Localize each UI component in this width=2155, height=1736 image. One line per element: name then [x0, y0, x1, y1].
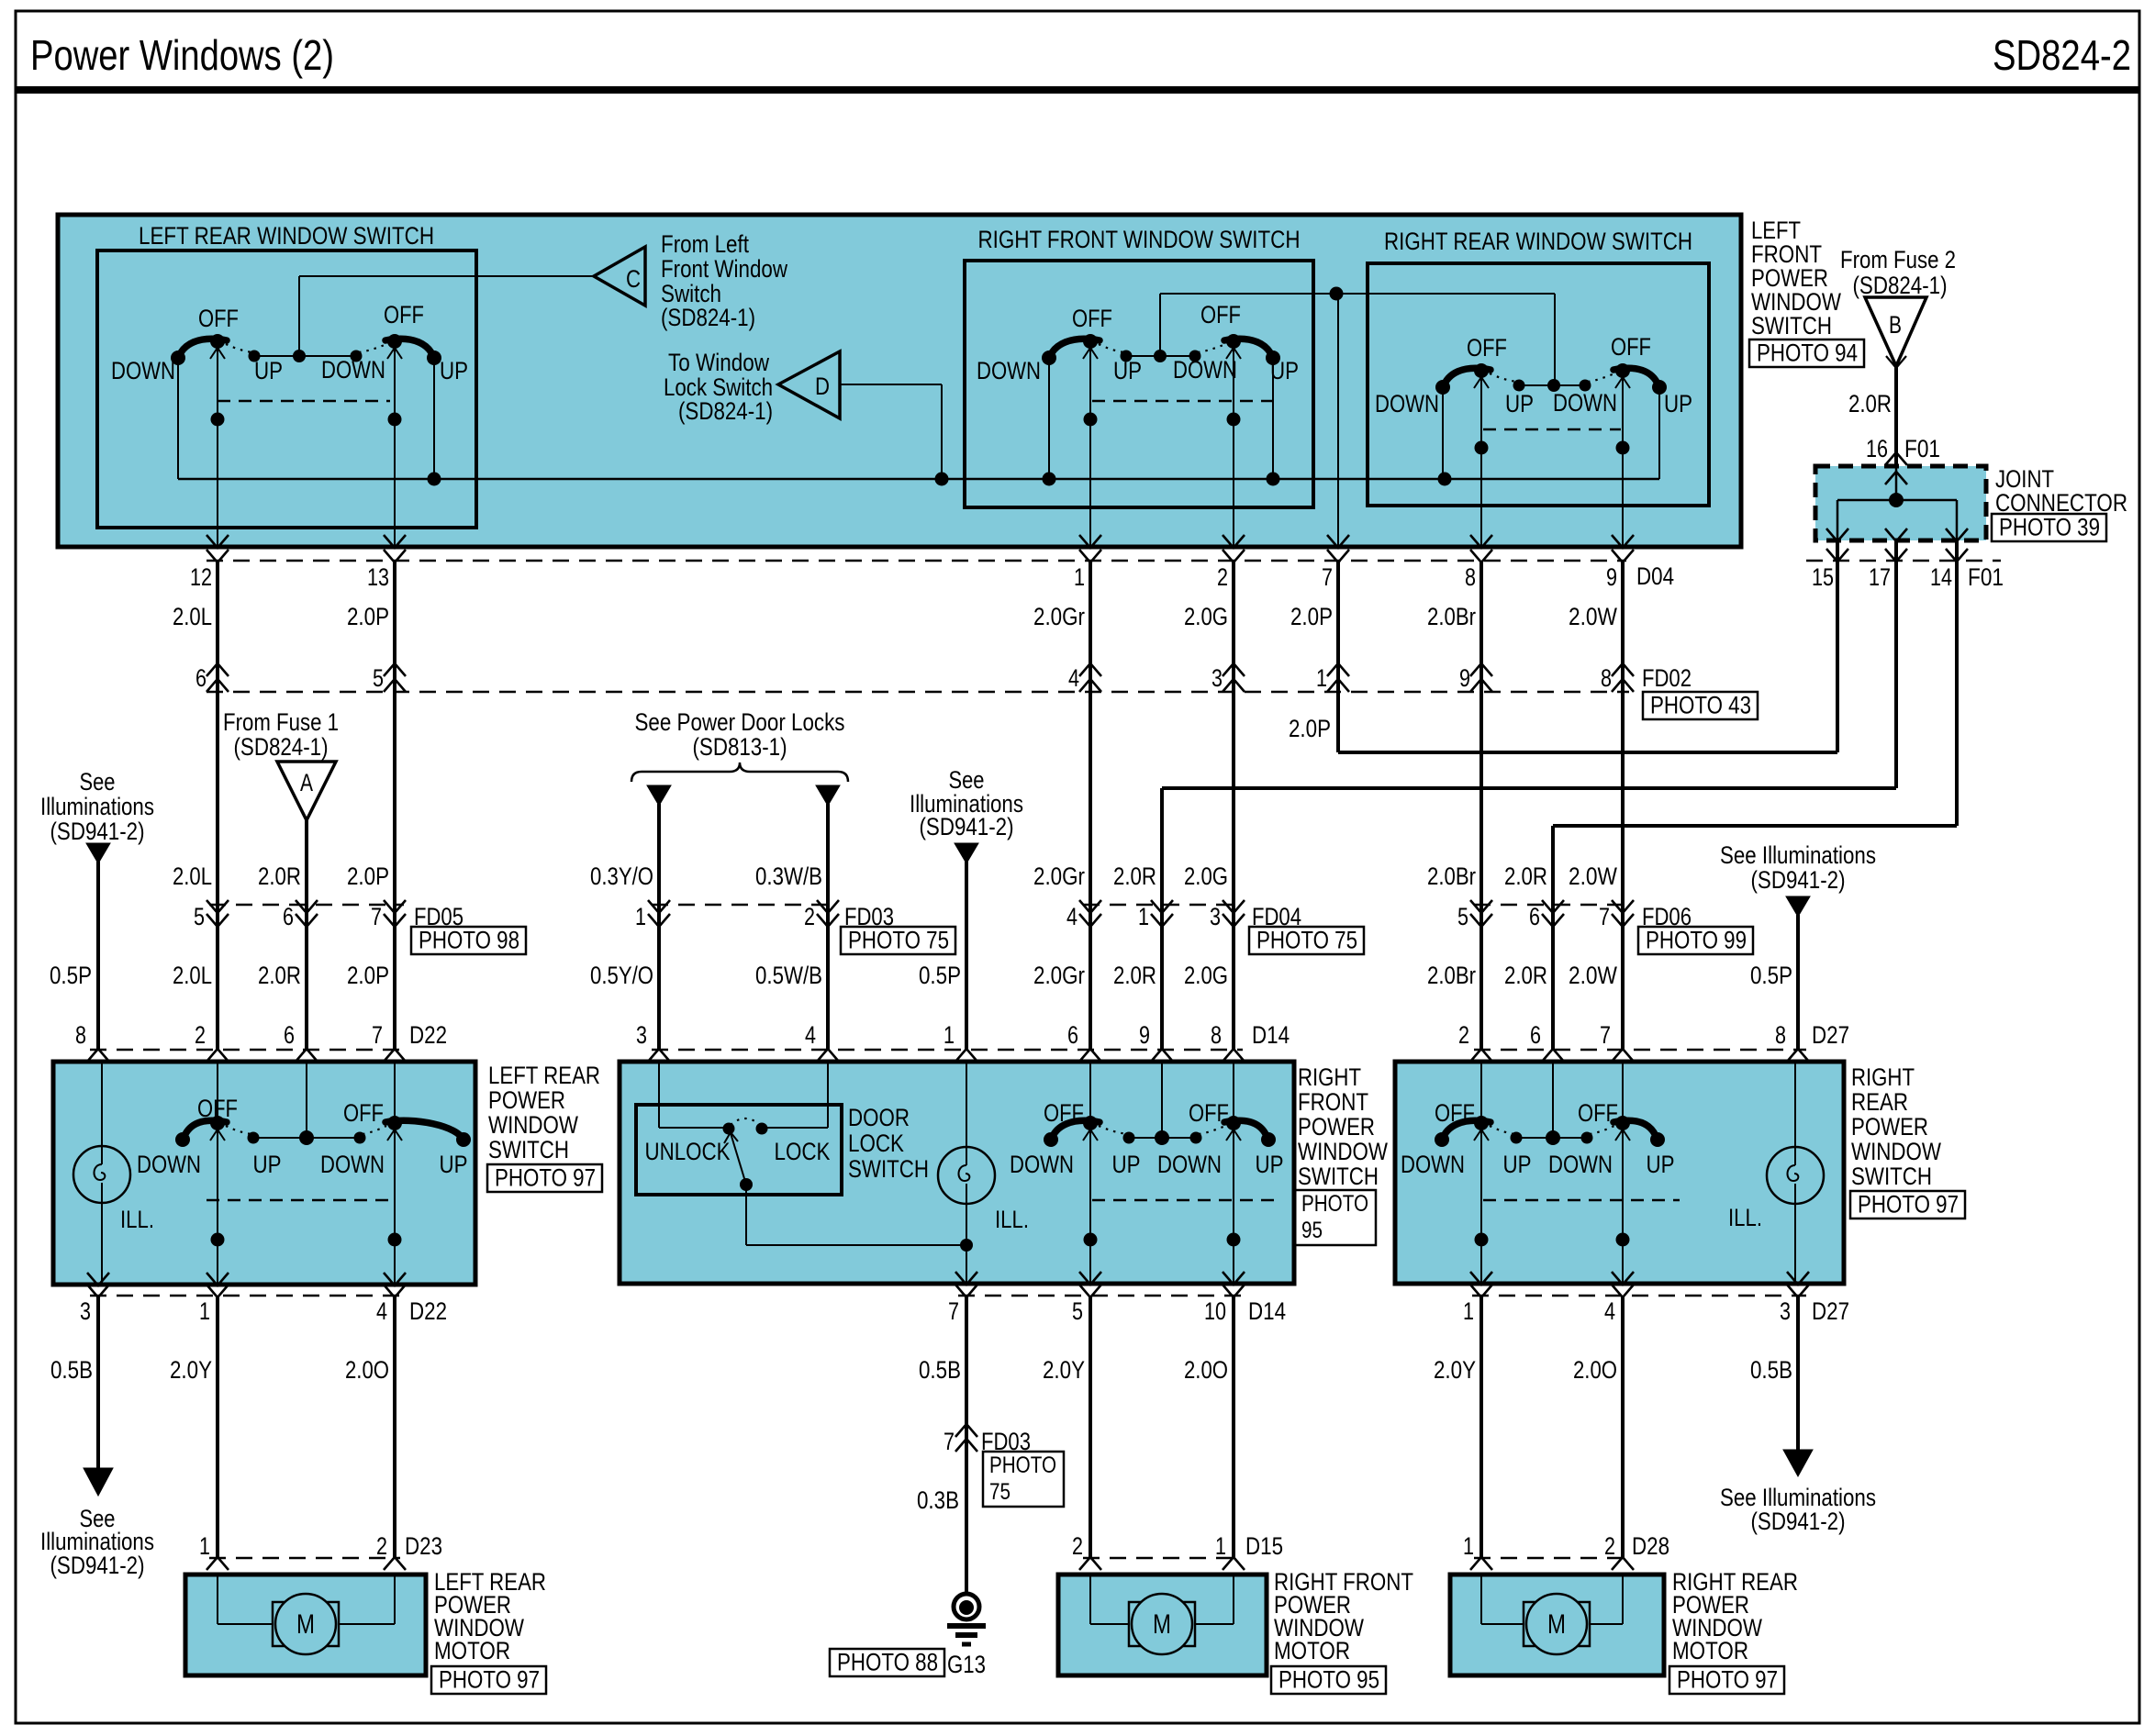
svg-text:ILL.: ILL.: [120, 1206, 154, 1233]
svg-text:7: 7: [1599, 903, 1610, 930]
svg-text:G13: G13: [947, 1651, 986, 1678]
svg-text:2.0P: 2.0P: [347, 962, 389, 989]
svg-text:2.0R: 2.0R: [1504, 862, 1547, 890]
svg-text:3: 3: [1780, 1297, 1791, 1325]
svg-text:2.0L: 2.0L: [173, 603, 212, 630]
svg-text:7: 7: [1322, 563, 1333, 591]
svg-text:2.0W: 2.0W: [1569, 603, 1617, 630]
svg-text:DOWN: DOWN: [320, 1151, 385, 1178]
svg-text:2.0R: 2.0R: [258, 962, 301, 989]
svg-text:4: 4: [805, 1021, 816, 1049]
svg-text:PHOTO 97: PHOTO 97: [439, 1666, 540, 1694]
svg-text:8: 8: [1211, 1021, 1222, 1049]
svg-text:1: 1: [199, 1532, 210, 1560]
svg-text:(SD824-1): (SD824-1): [661, 304, 755, 331]
svg-text:(SD941-2): (SD941-2): [50, 818, 145, 845]
svg-text:See Power Door Locks: See Power Door Locks: [635, 708, 845, 736]
svg-text:2.0R: 2.0R: [258, 862, 301, 890]
svg-text:DOWN: DOWN: [1553, 389, 1617, 417]
svg-text:See: See: [80, 768, 116, 796]
svg-text:7: 7: [372, 1021, 383, 1049]
svg-text:RIGHT REAR WINDOW SWITCH: RIGHT REAR WINDOW SWITCH: [1384, 228, 1692, 255]
svg-text:D: D: [815, 373, 830, 400]
svg-text:UP: UP: [440, 1151, 468, 1178]
svg-text:6: 6: [283, 903, 294, 930]
svg-text:UP: UP: [1647, 1151, 1675, 1178]
svg-text:2: 2: [376, 1532, 387, 1560]
svg-text:D22: D22: [409, 1297, 447, 1325]
svg-text:1: 1: [1463, 1532, 1474, 1560]
svg-text:3: 3: [80, 1297, 91, 1325]
svg-text:OFF: OFF: [1435, 1099, 1475, 1127]
svg-text:10: 10: [1204, 1297, 1226, 1325]
svg-text:2.0Br: 2.0Br: [1427, 862, 1476, 890]
svg-text:OFF: OFF: [198, 305, 239, 332]
svg-text:2.0R: 2.0R: [1504, 962, 1547, 989]
svg-text:M: M: [1547, 1609, 1566, 1640]
svg-text:6: 6: [1530, 1021, 1541, 1049]
svg-text:SD824-2: SD824-2: [1993, 31, 2131, 79]
svg-text:D28: D28: [1632, 1532, 1669, 1560]
svg-text:2.0G: 2.0G: [1184, 603, 1228, 630]
svg-text:DOWN: DOWN: [321, 356, 385, 384]
svg-text:2.0Gr: 2.0Gr: [1033, 962, 1085, 989]
svg-text:4: 4: [1604, 1297, 1615, 1325]
svg-text:0.5Y/O: 0.5Y/O: [590, 962, 653, 989]
svg-text:2.0G: 2.0G: [1184, 962, 1228, 989]
svg-text:WINDOW: WINDOW: [1298, 1138, 1388, 1165]
svg-text:5: 5: [373, 664, 384, 692]
svg-text:1: 1: [944, 1021, 955, 1049]
svg-text:PHOTO 95: PHOTO 95: [1278, 1666, 1379, 1694]
svg-text:2.0Y: 2.0Y: [170, 1356, 212, 1384]
svg-text:OFF: OFF: [197, 1095, 238, 1122]
svg-text:12: 12: [190, 563, 212, 591]
svg-text:2.0W: 2.0W: [1569, 962, 1617, 989]
svg-text:2.0R: 2.0R: [1113, 862, 1156, 890]
svg-text:UP: UP: [1112, 1151, 1141, 1178]
svg-text:Illuminations: Illuminations: [40, 793, 154, 820]
svg-text:14: 14: [1930, 563, 1952, 591]
svg-text:To Window: To Window: [668, 349, 769, 376]
svg-text:0.5W/B: 0.5W/B: [755, 962, 822, 989]
svg-text:DOOR: DOOR: [848, 1104, 910, 1131]
svg-text:2.0Br: 2.0Br: [1427, 962, 1476, 989]
svg-text:DOWN: DOWN: [1375, 390, 1439, 417]
svg-text:1: 1: [1138, 903, 1149, 930]
svg-text:D04: D04: [1636, 562, 1674, 590]
svg-text:SWITCH: SWITCH: [488, 1136, 569, 1163]
svg-text:13: 13: [367, 563, 389, 591]
svg-text:POWER: POWER: [1851, 1113, 1928, 1141]
svg-text:8: 8: [75, 1021, 86, 1049]
svg-text:D14: D14: [1252, 1021, 1290, 1049]
svg-text:0.5P: 0.5P: [919, 962, 961, 989]
svg-text:7: 7: [1600, 1021, 1611, 1049]
svg-text:SWITCH: SWITCH: [1851, 1163, 1932, 1190]
svg-text:CONNECTOR: CONNECTOR: [1995, 489, 2127, 517]
svg-text:6: 6: [284, 1021, 295, 1049]
svg-text:0.5P: 0.5P: [50, 962, 92, 989]
svg-text:UP: UP: [1664, 390, 1692, 417]
svg-text:LEFT REAR WINDOW SWITCH: LEFT REAR WINDOW SWITCH: [139, 222, 434, 250]
svg-text:OFF: OFF: [343, 1099, 384, 1127]
svg-text:9: 9: [1139, 1021, 1150, 1049]
svg-text:(SD824-1): (SD824-1): [1853, 272, 1948, 299]
svg-text:9: 9: [1459, 664, 1470, 692]
svg-text:WINDOW: WINDOW: [488, 1111, 578, 1139]
svg-text:UP: UP: [440, 357, 468, 384]
svg-text:2.0Gr: 2.0Gr: [1033, 603, 1085, 630]
svg-text:D27: D27: [1812, 1021, 1849, 1049]
svg-text:2.0P: 2.0P: [1290, 603, 1333, 630]
svg-text:DOWN: DOWN: [977, 357, 1041, 384]
svg-text:POWER: POWER: [488, 1086, 565, 1114]
svg-text:2: 2: [1604, 1532, 1615, 1560]
svg-text:LEFT REAR: LEFT REAR: [488, 1062, 600, 1089]
svg-text:95: 95: [1301, 1218, 1323, 1243]
svg-text:DOWN: DOWN: [111, 357, 175, 384]
svg-text:4: 4: [1066, 903, 1077, 930]
svg-text:D15: D15: [1245, 1532, 1283, 1560]
svg-text:3: 3: [636, 1021, 647, 1049]
svg-text:3: 3: [1211, 664, 1223, 692]
svg-text:2.0Y: 2.0Y: [1434, 1356, 1476, 1384]
svg-text:RIGHT FRONT WINDOW SWITCH: RIGHT FRONT WINDOW SWITCH: [978, 226, 1301, 253]
svg-text:2.0P: 2.0P: [347, 603, 389, 630]
svg-text:2.0O: 2.0O: [1184, 1356, 1228, 1384]
svg-text:8: 8: [1465, 563, 1476, 591]
svg-text:F01: F01: [1904, 435, 1940, 462]
svg-text:UP: UP: [1505, 390, 1534, 417]
svg-text:DOWN: DOWN: [1401, 1151, 1465, 1178]
svg-text:3: 3: [1210, 903, 1221, 930]
svg-text:DOWN: DOWN: [1010, 1151, 1074, 1178]
svg-text:Power Windows (2): Power Windows (2): [30, 31, 334, 79]
svg-text:PHOTO 97: PHOTO 97: [1858, 1191, 1959, 1219]
svg-text:0.5B: 0.5B: [919, 1356, 961, 1384]
svg-text:PHOTO 75: PHOTO 75: [1256, 927, 1357, 954]
svg-text:2: 2: [1217, 563, 1228, 591]
svg-text:From Left: From Left: [661, 230, 749, 258]
svg-text:2.0Gr: 2.0Gr: [1033, 862, 1085, 890]
svg-text:2: 2: [804, 903, 815, 930]
svg-text:0.3B: 0.3B: [917, 1486, 959, 1514]
svg-text:(SD941-2): (SD941-2): [1751, 866, 1846, 894]
svg-text:PHOTO 99: PHOTO 99: [1646, 927, 1747, 954]
svg-text:PHOTO 97: PHOTO 97: [1677, 1666, 1778, 1694]
svg-text:2.0W: 2.0W: [1569, 862, 1617, 890]
svg-text:OFF: OFF: [1189, 1099, 1229, 1127]
svg-text:OFF: OFF: [1072, 305, 1112, 332]
svg-text:POWER: POWER: [1298, 1113, 1375, 1141]
svg-text:4: 4: [376, 1297, 387, 1325]
svg-text:A: A: [300, 769, 313, 796]
svg-text:15: 15: [1812, 563, 1834, 591]
svg-text:B: B: [1889, 311, 1902, 339]
svg-text:LOCK: LOCK: [848, 1130, 904, 1157]
svg-text:OFF: OFF: [1467, 334, 1507, 362]
svg-text:RIGHT: RIGHT: [1851, 1063, 1915, 1091]
svg-text:D23: D23: [405, 1532, 442, 1560]
svg-text:See Illuminations: See Illuminations: [1720, 841, 1876, 869]
svg-text:UP: UP: [253, 1151, 282, 1178]
svg-text:PHOTO 39: PHOTO 39: [1999, 514, 2100, 541]
svg-text:OFF: OFF: [1200, 301, 1241, 328]
svg-text:OFF: OFF: [1044, 1099, 1084, 1127]
svg-text:9: 9: [1606, 563, 1617, 591]
svg-text:7: 7: [944, 1428, 955, 1455]
svg-text:PHOTO 75: PHOTO 75: [848, 927, 949, 954]
svg-text:SWITCH: SWITCH: [1298, 1163, 1379, 1190]
svg-text:4: 4: [1068, 664, 1079, 692]
svg-text:FRONT: FRONT: [1298, 1088, 1368, 1116]
svg-text:2.0L: 2.0L: [173, 862, 212, 890]
svg-text:2.0L: 2.0L: [173, 962, 212, 989]
svg-text:OFF: OFF: [1578, 1099, 1618, 1127]
svg-text:1: 1: [1463, 1297, 1474, 1325]
svg-text:D22: D22: [409, 1021, 447, 1049]
svg-text:PHOTO 97: PHOTO 97: [495, 1164, 596, 1192]
svg-text:ILL.: ILL.: [1728, 1204, 1762, 1231]
svg-text:SWITCH: SWITCH: [1751, 312, 1832, 339]
svg-text:(SD941-2): (SD941-2): [1751, 1508, 1846, 1535]
svg-text:MOTOR: MOTOR: [1274, 1637, 1350, 1664]
svg-text:DOWN: DOWN: [1173, 356, 1237, 384]
svg-text:17: 17: [1869, 563, 1891, 591]
svg-text:MOTOR: MOTOR: [1672, 1637, 1748, 1664]
svg-text:1: 1: [1074, 563, 1085, 591]
svg-text:(SD941-2): (SD941-2): [50, 1552, 145, 1579]
svg-text:PHOTO 94: PHOTO 94: [1757, 339, 1858, 367]
svg-text:6: 6: [1529, 903, 1540, 930]
svg-text:D27: D27: [1812, 1297, 1849, 1325]
svg-text:WINDOW: WINDOW: [1851, 1138, 1941, 1165]
svg-text:C: C: [626, 265, 641, 293]
svg-text:D14: D14: [1248, 1297, 1286, 1325]
svg-text:OFF: OFF: [384, 301, 424, 328]
svg-text:5: 5: [1457, 903, 1468, 930]
svg-text:FD02: FD02: [1642, 664, 1692, 692]
svg-text:DOWN: DOWN: [137, 1151, 201, 1178]
svg-text:2.0Br: 2.0Br: [1427, 603, 1476, 630]
svg-text:8: 8: [1601, 664, 1612, 692]
svg-text:0.3Y/O: 0.3Y/O: [590, 862, 653, 890]
svg-text:6: 6: [195, 664, 207, 692]
svg-text:1: 1: [1215, 1532, 1226, 1560]
svg-text:2.0G: 2.0G: [1184, 862, 1228, 890]
svg-text:UNLOCK: UNLOCK: [645, 1138, 731, 1165]
svg-text:Front Window: Front Window: [661, 255, 787, 283]
svg-text:ILL.: ILL.: [995, 1206, 1029, 1233]
svg-text:(SD941-2): (SD941-2): [920, 813, 1014, 840]
svg-text:7: 7: [948, 1297, 959, 1325]
svg-text:5: 5: [1072, 1297, 1083, 1325]
svg-text:(SD824-1): (SD824-1): [678, 397, 773, 425]
svg-text:2.0R: 2.0R: [1113, 962, 1156, 989]
svg-text:M: M: [1153, 1609, 1171, 1640]
svg-text:0.5B: 0.5B: [50, 1356, 93, 1384]
svg-text:UP: UP: [1113, 357, 1142, 384]
svg-text:PHOTO: PHOTO: [1301, 1191, 1368, 1217]
svg-text:1: 1: [199, 1297, 210, 1325]
svg-text:8: 8: [1775, 1021, 1786, 1049]
svg-text:2: 2: [1458, 1021, 1469, 1049]
svg-text:From Fuse 2: From Fuse 2: [1840, 246, 1956, 273]
svg-text:6: 6: [1067, 1021, 1078, 1049]
svg-text:1: 1: [1316, 664, 1327, 692]
svg-text:1: 1: [635, 903, 646, 930]
svg-text:SWITCH: SWITCH: [848, 1155, 929, 1183]
svg-text:F01: F01: [1968, 563, 2004, 591]
svg-text:0.5B: 0.5B: [1750, 1356, 1792, 1384]
svg-text:2.0O: 2.0O: [345, 1356, 389, 1384]
svg-text:MOTOR: MOTOR: [434, 1637, 510, 1664]
svg-text:(SD824-1): (SD824-1): [234, 733, 329, 761]
svg-text:DOWN: DOWN: [1157, 1151, 1222, 1178]
svg-text:DOWN: DOWN: [1548, 1151, 1613, 1178]
svg-text:PHOTO 43: PHOTO 43: [1650, 692, 1751, 719]
svg-text:LOCK: LOCK: [775, 1138, 831, 1165]
svg-text:PHOTO: PHOTO: [989, 1452, 1056, 1478]
svg-text:2.0O: 2.0O: [1573, 1356, 1617, 1384]
svg-text:16: 16: [1866, 435, 1888, 462]
svg-text:0.5P: 0.5P: [1750, 962, 1792, 989]
svg-text:OFF: OFF: [1611, 333, 1651, 361]
svg-text:(SD813-1): (SD813-1): [693, 733, 787, 761]
svg-text:75: 75: [989, 1479, 1011, 1505]
svg-text:2.0P: 2.0P: [1289, 715, 1331, 742]
svg-text:RIGHT: RIGHT: [1298, 1063, 1361, 1091]
svg-text:2.0Y: 2.0Y: [1043, 1356, 1085, 1384]
svg-text:From Fuse 1: From Fuse 1: [223, 708, 339, 736]
svg-text:M: M: [296, 1609, 315, 1640]
svg-text:0.3W/B: 0.3W/B: [755, 862, 822, 890]
svg-text:PHOTO 88: PHOTO 88: [837, 1649, 938, 1676]
svg-text:5: 5: [194, 903, 205, 930]
svg-text:UP: UP: [1270, 357, 1299, 384]
svg-text:2: 2: [195, 1021, 206, 1049]
svg-text:UP: UP: [254, 357, 283, 384]
svg-text:UP: UP: [1256, 1151, 1284, 1178]
svg-text:2.0P: 2.0P: [347, 862, 389, 890]
svg-text:REAR: REAR: [1851, 1088, 1908, 1116]
svg-text:2.0R: 2.0R: [1848, 390, 1892, 417]
svg-text:2: 2: [1072, 1532, 1083, 1560]
svg-text:7: 7: [371, 903, 382, 930]
svg-text:PHOTO 98: PHOTO 98: [419, 927, 519, 954]
svg-text:UP: UP: [1503, 1151, 1532, 1178]
